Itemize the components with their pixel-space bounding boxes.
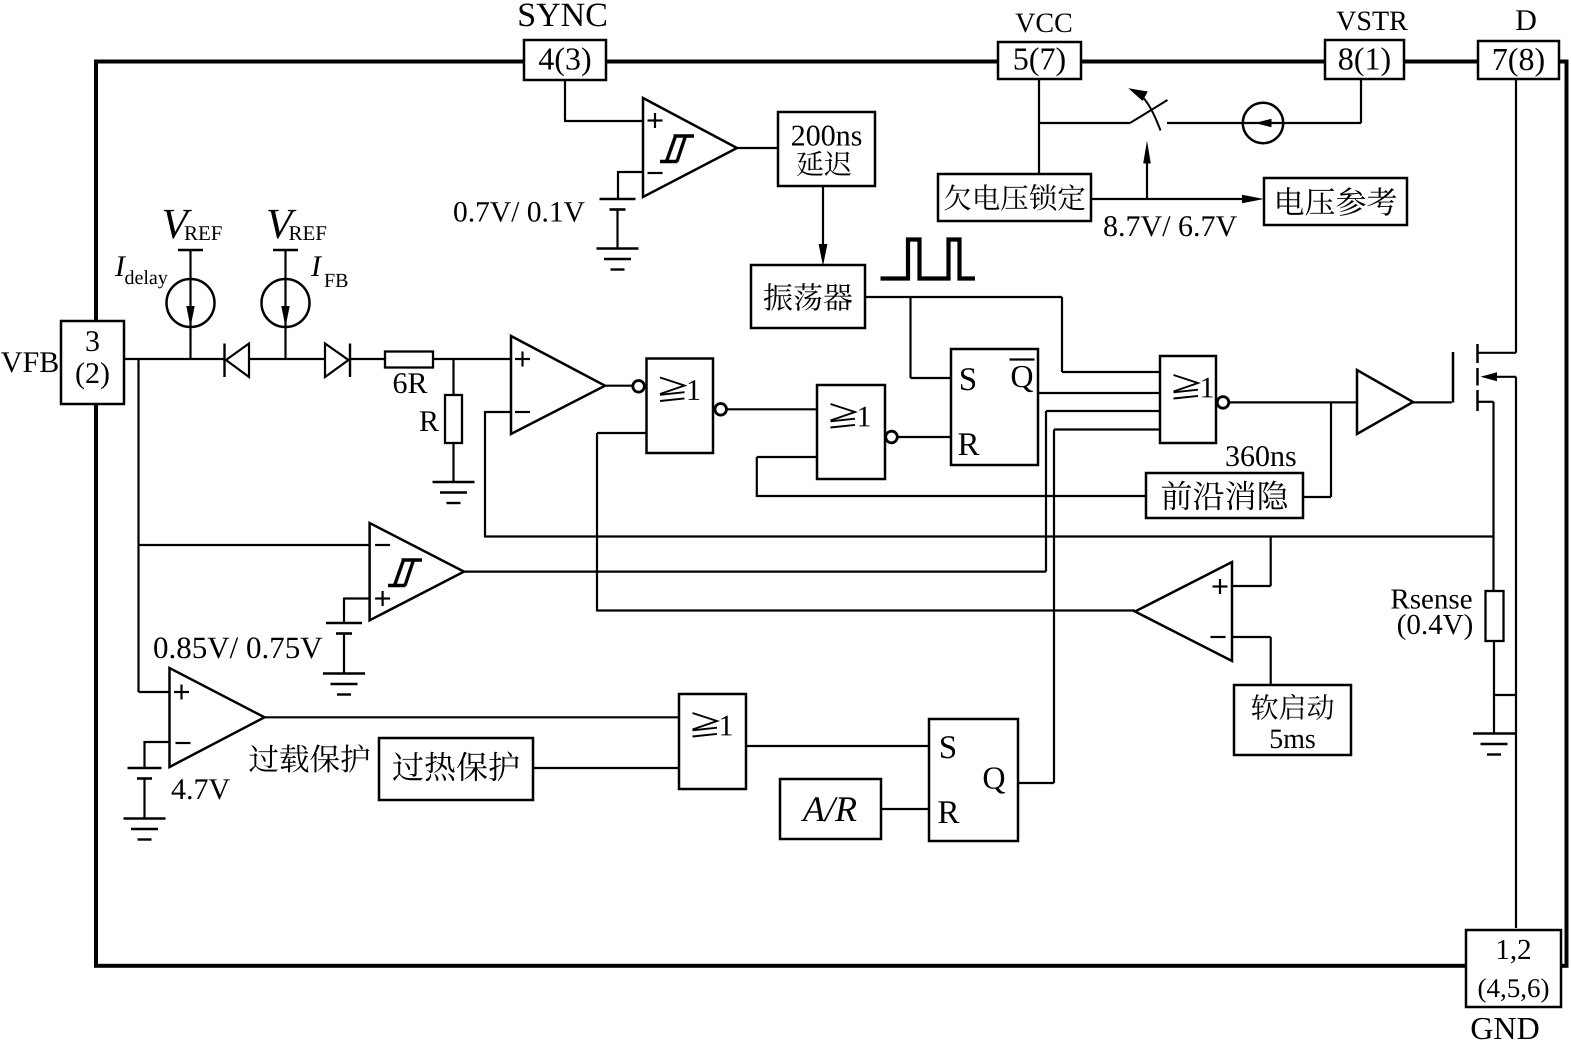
wire sense comparator + input from bus (1270, 537, 1272, 587)
thermal protection box (379, 738, 533, 800)
MOSFET Q1 gate bar (1452, 352, 1455, 403)
wire hysteresis comparator + input to battery (344, 597, 370, 599)
pin label VFB (1, 352, 58, 372)
wire switch to startup current source (1167, 122, 1244, 124)
pin label VSTR (1337, 11, 1408, 30)
MOSFET Q1 channel dashes (1476, 344, 1479, 363)
label 4.7V (172, 779, 230, 799)
label I_delay (115, 256, 126, 276)
OR gate OR4 (679, 694, 746, 789)
diode D2 cathode right (325, 344, 349, 378)
label 8.7V/6.7V (1104, 216, 1237, 236)
delay box 200ns (778, 112, 875, 186)
wire VCC pin to UVLO (1038, 79, 1040, 174)
arrow UVLO controls switch (1146, 162, 1148, 199)
OR2 output bubble (886, 431, 898, 443)
wire current sense bus (485, 535, 1494, 537)
label VREF for I_FB (268, 210, 296, 239)
wire thermal protection to OR4 input 2 (533, 767, 679, 769)
OR3 output bubble (1217, 397, 1229, 409)
pin label GND (1472, 1018, 1539, 1039)
wire OR2 output to FF1 R (898, 436, 952, 438)
wire LEB output to OR2 input 2 (757, 456, 817, 458)
diode D1 cathode left (223, 344, 225, 378)
wire MOSFET source to Rsense (1478, 401, 1494, 403)
label 0.85V/0.75V (154, 637, 322, 658)
resistor R (445, 395, 462, 443)
wire PWM comparator - input to current sense bus (485, 411, 511, 413)
wire D pin to MOSFET drain (1515, 79, 1517, 353)
resistor Rsense (1486, 591, 1504, 641)
wire FF1 Qbar to OR3 input 2 (1038, 392, 1160, 394)
wire oscillator to FF1 S input (909, 297, 911, 378)
current sense comparator (1135, 562, 1232, 661)
pin VCC 5(7) (998, 42, 1081, 79)
OR gate OR2 (817, 385, 885, 479)
wire FF2 Q to OR3 input 4 (1018, 782, 1054, 784)
resistor 6R (385, 352, 433, 368)
arrow 200ns delay to oscillator (822, 186, 824, 245)
wire OR1 output to OR2 (727, 408, 817, 410)
driver buffer (1357, 370, 1413, 434)
wire OR4 output to FF2 S (746, 745, 929, 747)
wire VFB branch down to comparators (137, 359, 139, 692)
pin label D (1516, 10, 1536, 30)
MOSFET Q1 body arrow (1496, 376, 1516, 378)
battery 4.7V (128, 768, 162, 779)
wire overload comparator - input to 4.7V battery (145, 741, 170, 743)
leading edge blanking box (1146, 473, 1303, 518)
UVLO box undervoltage lockout (938, 174, 1091, 221)
ground for 4.7V battery (124, 819, 166, 840)
label I_FB (311, 256, 322, 276)
ground for 0.85V battery (323, 674, 365, 695)
wire startup current source to VSTR pin (1283, 122, 1361, 124)
current source I_delay (178, 249, 203, 252)
Schmitt comparator U1 (SYNC) (643, 98, 737, 197)
pin D 7(8) (1478, 41, 1559, 79)
pin label SYNC (519, 3, 606, 26)
label 360ns (1226, 446, 1295, 466)
wire sense comparator output to OR1 input 2 (596, 433, 598, 612)
wire hysteresis comparator output to OR3 input 3 (464, 570, 1046, 572)
wire OR3 output to driver buffer (1229, 401, 1357, 403)
wire I_delay current source (189, 250, 191, 359)
wire 6R to R divider and PWM comparator + input (452, 359, 454, 395)
wire UVLO output to voltage reference with arrowhead (1091, 198, 1253, 200)
oscillator box (751, 265, 865, 328)
switch blade (1130, 100, 1168, 123)
switch actuation arc with arrowhead (1142, 97, 1161, 131)
overload comparator 4.7V (170, 668, 265, 767)
wire hysteresis comparator - input (139, 544, 370, 546)
wire SYNC pin to Schmitt comparator + input (564, 80, 566, 121)
current source I_FB (273, 249, 298, 252)
wire Rsense to ground (1493, 641, 1495, 734)
wire oscillator output (865, 296, 1062, 298)
wire Schmitt comparator - input to battery (618, 171, 643, 173)
pin SYNC 4(3) (524, 40, 606, 80)
wire overload comparator output to OR4 input 1 (265, 716, 680, 718)
ground for Rsense (1473, 734, 1515, 755)
label overload protection (249, 744, 369, 772)
wire PWM comparator output to OR1 (605, 385, 633, 387)
auto-restart box A/R (780, 779, 881, 839)
pin VFB 3(2) (61, 321, 124, 404)
wire R resistor to ground (452, 443, 454, 482)
OR gate OR1 (647, 359, 714, 454)
wire oscillator to OR3 input 1 (1061, 297, 1063, 372)
pin GND 1,2 4,5,6 (1466, 930, 1561, 1007)
OR gate OR1 input bubble (633, 381, 645, 393)
flip-flop FF1 with S R Qbar (951, 349, 1038, 465)
label 0.7V/0.1V (454, 202, 584, 222)
ground for R resistor (433, 482, 475, 503)
PWM comparator (511, 336, 605, 434)
wire Schmitt output to 200ns box (737, 147, 778, 149)
wire A/R to FF2 R (881, 808, 929, 810)
OR gate OR3 (1160, 356, 1216, 443)
wire OR3 output branch to LEB (1330, 402, 1332, 497)
pin VSTR 8(1) (1325, 40, 1404, 79)
ground for 0.7V battery (597, 249, 639, 270)
wire VFB feedback rail (124, 358, 225, 360)
label VREF for I_delay (164, 210, 192, 239)
wire overload comparator + input (139, 691, 170, 693)
battery 0.85V (326, 623, 362, 634)
wire buffer to MOSFET gate (1413, 401, 1452, 403)
soft start box 5ms (1234, 685, 1351, 755)
battery 0.7V (600, 199, 636, 210)
wire I_FB current source (284, 250, 286, 359)
clock waveform icon (881, 240, 976, 279)
wire VCC node to switch (1039, 122, 1130, 124)
flip-flop FF2 with S R Q (929, 719, 1018, 841)
voltage reference box (1264, 178, 1407, 225)
wire MOSFET body rail to GND pin (1515, 377, 1517, 928)
wire sense comparator - input to soft start (1232, 636, 1271, 638)
startup current source (1243, 103, 1283, 143)
hysteresis comparator 0.85V/0.75V (370, 523, 464, 620)
pin label VCC (1016, 13, 1072, 32)
OR1 output bubble (715, 404, 727, 416)
